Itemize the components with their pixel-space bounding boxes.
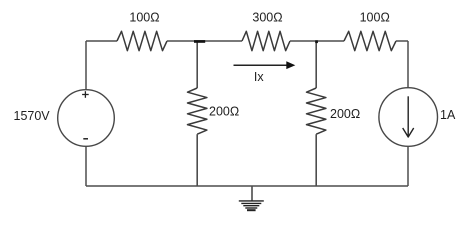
bottom wire [86,185,408,187]
wire node B down to R4 [196,41,198,88]
current source I1 circle [379,88,438,147]
voltage source minus sign [83,138,88,140]
voltage source plus sign [82,91,89,98]
Ix current arrow [234,64,288,66]
wire R1 to R2 through node B [167,40,242,42]
svg-text:Ix: Ix [254,70,264,84]
node C junction mark [315,40,318,43]
svg-text:200Ω: 200Ω [330,107,360,121]
wire top of voltage source up to top wire [85,41,87,90]
wire current source to bottom wire [407,146,409,186]
wire node C down to R5 [315,41,317,88]
wire R5 to bottom wire [315,134,317,186]
resistor R5 200ohm (right vertical) [307,88,326,134]
svg-text:1570V: 1570V [14,109,51,123]
wire top-left horizontal (corner to R1) [86,40,117,42]
svg-text:200Ω: 200Ω [209,105,239,119]
ground stem [251,186,253,201]
wire right branch down to current source [407,41,409,88]
ground symbol bars [239,201,264,210]
svg-text:100Ω: 100Ω [360,11,390,25]
resistor R4 200ohm (left vertical) [188,88,207,134]
wire R3 to top-right corner [396,40,408,42]
resistor R1 100ohm (top left) [117,31,167,50]
resistor R3 100ohm (top right) [344,31,396,50]
node B junction mark [194,40,205,43]
svg-text:300Ω: 300Ω [252,11,282,25]
wire voltage source to bottom wire [85,146,87,186]
wire R2 to R3 through node C [290,40,344,42]
svg-text:1A: 1A [440,108,456,122]
voltage source V1 circle [58,90,115,147]
resistor R2 300ohm (top middle) [242,31,290,50]
svg-text:100Ω: 100Ω [129,11,159,25]
current source arrow (downward) [407,96,409,136]
wire R4 to bottom wire [196,134,198,186]
